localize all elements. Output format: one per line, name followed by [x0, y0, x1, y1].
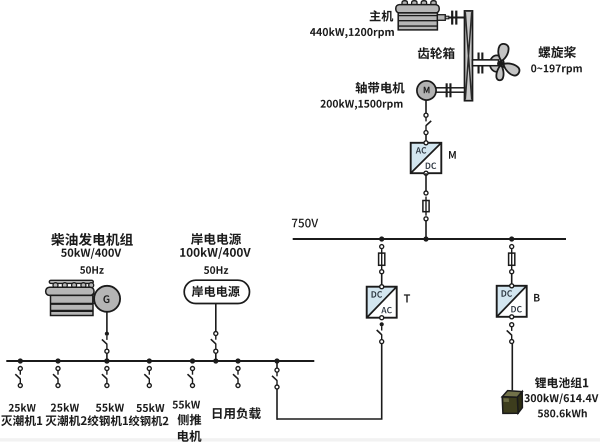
- propeller 螺旋桨: [490, 55, 504, 71]
- node: 侧推电机 on AC bus: [190, 358, 195, 363]
- text 55kW (1): [96, 403, 124, 412]
- generator G: [94, 286, 120, 312]
- text 灭潮机2: [46, 415, 87, 426]
- wire T to bottom loop: [381, 344, 383, 419]
- text 50kW/400V (genset): [61, 248, 121, 259]
- switch QF 灭潮机1: [18, 367, 22, 371]
- bus 400V AC: [6, 360, 314, 362]
- switch QF 日用负载: [236, 367, 240, 371]
- fuse F-M: [425, 197, 427, 216]
- wire shore to switch: [215, 304, 217, 332]
- switch QF 侧推电机: [191, 367, 195, 371]
- terminal: [424, 217, 428, 221]
- node: 灭潮机1 on AC bus: [18, 358, 23, 363]
- text 300kW/614.4V: [524, 394, 598, 405]
- text 580.6kWh: [538, 409, 587, 417]
- text 侧推: [178, 414, 202, 426]
- coupling: motor shaft flange: [446, 83, 448, 97]
- battery 锂电池组1: [502, 391, 522, 398]
- text 螺旋桨: [538, 46, 576, 58]
- fuse F-B: [511, 249, 513, 269]
- switch QF-M: [424, 113, 428, 117]
- wire switch to converter M: [425, 135, 427, 143]
- switch QF 绞钢机2: [147, 367, 151, 371]
- wire converter M to fuse: [425, 173, 427, 191]
- engine: main engine 主机: [402, 1, 407, 5]
- text 日用负载: [213, 407, 261, 419]
- switch QF-G: [105, 332, 109, 336]
- text 25kW (2): [51, 403, 79, 412]
- shore power source 岸电电源: [184, 280, 249, 303]
- converter U-M (AC/DC): [411, 143, 442, 173]
- wire: engine shaft to gearbox: [449, 17, 465, 19]
- switch QF 灭潮机2: [56, 367, 60, 371]
- label M: [449, 151, 456, 159]
- wire: motor shaft: [435, 88, 465, 92]
- motor M (shaft generator): [417, 81, 436, 100]
- terminal: [380, 245, 384, 249]
- text 柴油发电机组: [51, 233, 133, 246]
- text 50Hz (shore): [204, 266, 228, 274]
- text 轴带电机: [356, 82, 405, 94]
- node: 绞钢机1 on AC bus: [104, 358, 109, 363]
- wire tie to AC bus: [276, 361, 278, 368]
- coupling: engine-gearbox flange: [451, 11, 453, 25]
- gearbox 齿轮箱: [465, 11, 473, 101]
- wire M motor to switch: [425, 100, 427, 113]
- node: T on 750V bus: [379, 236, 384, 241]
- text 200kW,1500rpm: [321, 99, 403, 110]
- node: 绞钢机2 on AC bus: [147, 358, 152, 363]
- switch QF-shore: [214, 332, 218, 336]
- bus 750V DC: [293, 238, 566, 240]
- switch QF-B: [510, 323, 514, 327]
- text 440kW,1200rpm: [310, 28, 394, 39]
- text 750V: [292, 219, 318, 228]
- wire G to switch: [106, 312, 108, 332]
- text 绞钢机1: [88, 415, 129, 426]
- fuse F-T: [381, 249, 383, 269]
- decor: [0, 438, 600, 441]
- wire B to battery: [511, 344, 513, 391]
- converter U-T (DC/AC): [367, 287, 397, 318]
- node: tie on AC bus: [274, 358, 279, 363]
- text 灭潮机1: [1, 415, 42, 426]
- text 岸电电源 (title): [191, 233, 241, 245]
- text 锂电池组1: [535, 377, 588, 388]
- node: M on 750V bus: [423, 236, 428, 241]
- wire fuse to converter T: [381, 274, 383, 287]
- switch QF 绞钢机1: [105, 367, 109, 371]
- text 主机: [370, 10, 394, 21]
- terminal: [424, 191, 428, 195]
- node: 灭潮机2 on AC bus: [55, 358, 60, 363]
- wire fuse to DC bus: [425, 221, 427, 239]
- terminal: [510, 270, 514, 274]
- text 齿轮箱: [418, 47, 455, 59]
- node: B on 750V bus: [509, 236, 514, 241]
- wire shore switch to AC bus: [215, 353, 217, 361]
- terminal: [380, 270, 384, 274]
- text 电机: [178, 430, 202, 442]
- text 55kW (3): [173, 400, 201, 408]
- label B: [534, 294, 540, 302]
- node: shore on AC bus: [213, 358, 218, 363]
- node: G on AC bus: [104, 358, 109, 363]
- text 绞钢机2: [129, 415, 169, 426]
- text 55kW (2): [136, 403, 164, 412]
- text 25kW (1): [9, 403, 36, 411]
- wire: propeller shaft: [473, 60, 498, 66]
- text 50Hz (genset): [80, 266, 104, 274]
- switch QF-T: [380, 322, 384, 326]
- coupling: propeller shaft flange: [478, 53, 480, 74]
- text 0~197rpm: [531, 64, 582, 74]
- wire loop up: [276, 389, 278, 420]
- node: 日用负载 on AC bus: [235, 358, 240, 363]
- wire fuse to converter B: [511, 274, 513, 286]
- label T: [404, 294, 410, 302]
- text 100kW/400V: [180, 247, 251, 259]
- switch QF-AC-tie: [275, 368, 279, 372]
- converter U-B (DC/DC): [497, 286, 527, 317]
- engine: diesel genset 柴油发电机组: [49, 280, 93, 283]
- wire G switch to AC bus: [106, 353, 108, 361]
- terminal: [510, 245, 514, 249]
